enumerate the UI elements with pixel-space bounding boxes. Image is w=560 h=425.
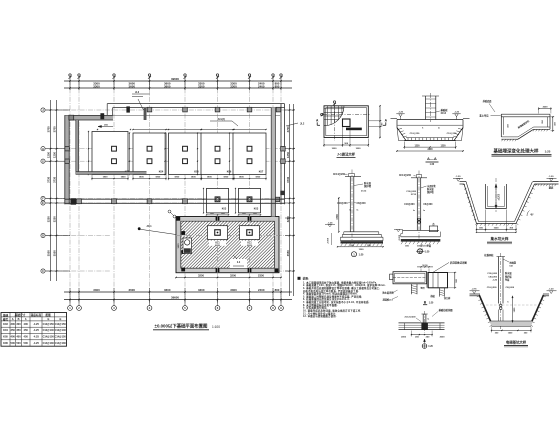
svg-text:K04: K04 [159, 170, 164, 173]
svg-text:G: G [42, 160, 44, 163]
svg-text:-1.26: -1.26 [492, 280, 498, 282]
svg-text:1250: 1250 [414, 145, 420, 147]
svg-text:450: 450 [24, 328, 29, 332]
svg-text:K03: K03 [254, 208, 259, 211]
svg-text:J-1做法大样: J-1做法大样 [337, 152, 356, 157]
svg-text:C: C [42, 270, 44, 273]
svg-text:1000: 1000 [356, 148, 362, 150]
svg-text:1:25: 1:25 [545, 149, 551, 153]
svg-text:-4.25: -4.25 [33, 341, 39, 345]
svg-text:JL1(2): JL1(2) [217, 118, 225, 121]
svg-text:39600: 39600 [171, 296, 179, 300]
svg-text:2800: 2800 [427, 149, 433, 151]
svg-text:3300: 3300 [93, 288, 100, 292]
svg-text:1800: 1800 [103, 177, 109, 179]
svg-text:4C14@200: 4C14@200 [333, 173, 346, 176]
svg-text:3600: 3600 [129, 288, 136, 292]
svg-text:-2.76: -2.76 [472, 289, 478, 291]
svg-text:K06: K06 [3, 341, 8, 345]
svg-text:500: 500 [24, 341, 29, 345]
svg-text:350: 350 [11, 328, 16, 332]
svg-text:C10@200: C10@200 [406, 191, 417, 193]
svg-text:3600: 3600 [164, 84, 171, 88]
svg-text:3730: 3730 [47, 176, 51, 182]
svg-text:2000: 2000 [440, 337, 446, 339]
svg-text:编号: 编号 [3, 317, 9, 321]
svg-text:3250: 3250 [198, 274, 204, 278]
svg-text:300: 300 [16, 322, 21, 326]
svg-text:1:100: 1:100 [212, 325, 220, 329]
svg-text:400: 400 [16, 335, 21, 339]
svg-text:-1.20: -1.20 [549, 176, 555, 178]
svg-text:3700: 3700 [53, 126, 57, 132]
svg-text:1800: 1800 [207, 177, 213, 179]
svg-text:1250: 1250 [440, 145, 446, 147]
svg-text:3300: 3300 [93, 84, 100, 88]
svg-text:3700: 3700 [47, 126, 51, 132]
svg-text:-1.20: -1.20 [398, 112, 404, 114]
svg-text:3730: 3730 [286, 176, 290, 182]
svg-text:C12@140: C12@140 [43, 329, 55, 332]
svg-text:1:20: 1:20 [429, 302, 434, 304]
svg-text:2000: 2000 [401, 337, 407, 339]
svg-text:②: ② [59, 318, 61, 321]
svg-text:3550: 3550 [47, 250, 51, 256]
svg-text:2400: 2400 [258, 288, 265, 292]
svg-text:800: 800 [275, 84, 280, 88]
svg-text:39600: 39600 [171, 77, 179, 81]
svg-text:3300: 3300 [198, 288, 205, 292]
svg-text:-2.000: -2.000 [399, 234, 401, 241]
svg-text:1800: 1800 [255, 177, 261, 179]
svg-text:C12@150: C12@150 [447, 133, 458, 135]
svg-text:2C12@200: 2C12@200 [404, 316, 416, 318]
svg-text:4C14@200: 4C14@200 [399, 174, 412, 177]
svg-text:1:20: 1:20 [359, 253, 364, 256]
svg-text:2350: 2350 [258, 274, 264, 278]
svg-text:3250: 3250 [286, 216, 290, 222]
svg-text:C14@150: C14@150 [43, 336, 55, 339]
svg-text:1650: 1650 [178, 243, 180, 249]
svg-text:C12@150: C12@150 [55, 323, 67, 326]
svg-text:JC-1: JC-1 [146, 225, 152, 228]
svg-text:3600: 3600 [129, 84, 136, 88]
svg-text:C8@200: C8@200 [506, 287, 515, 289]
svg-text:K03: K03 [222, 208, 227, 211]
svg-text:laE: laE [510, 266, 514, 268]
svg-text:说明:: 说明: [303, 277, 310, 281]
svg-text:C14@150: C14@150 [55, 336, 67, 339]
svg-text:1800: 1800 [121, 177, 127, 179]
svg-text:1000: 1000 [332, 148, 338, 150]
svg-text:-4.25: -4.25 [33, 335, 39, 339]
svg-text:1250: 1250 [53, 151, 57, 157]
svg-text:JL2: JL2 [300, 123, 305, 126]
svg-text:3700: 3700 [286, 126, 290, 132]
svg-text:1800: 1800 [139, 177, 145, 179]
svg-text:K04: K04 [3, 328, 8, 332]
svg-text:电梯基坑大样: 电梯基坑大样 [506, 339, 527, 344]
svg-text:-1.20: -1.20 [549, 289, 555, 291]
svg-text:C14@130: C14@130 [43, 342, 55, 345]
svg-text:1250: 1250 [47, 151, 51, 157]
svg-text:400: 400 [24, 322, 29, 326]
svg-text:800: 800 [275, 288, 280, 292]
svg-text:3250: 3250 [53, 216, 57, 222]
svg-text:3300: 3300 [230, 84, 237, 88]
svg-text:C12@140: C12@140 [55, 329, 67, 332]
svg-text:450: 450 [24, 335, 29, 339]
svg-text:3730: 3730 [53, 176, 57, 182]
svg-text:A—A: A—A [427, 156, 437, 161]
svg-text:2500: 2500 [543, 107, 549, 109]
svg-text:3300: 3300 [198, 84, 205, 88]
svg-text:1500: 1500 [494, 228, 500, 230]
svg-text:(K05): (K05) [247, 245, 252, 247]
svg-text:1800: 1800 [239, 177, 245, 179]
svg-text:1:20: 1:20 [430, 164, 435, 166]
svg-text:K05: K05 [3, 335, 8, 339]
svg-text:①: ① [47, 318, 49, 321]
svg-text:50 50: 50 50 [422, 265, 428, 267]
svg-text:1800: 1800 [191, 177, 197, 179]
svg-text:基底标高: 基底标高 [30, 313, 42, 317]
svg-text:45°: 45° [530, 214, 534, 217]
svg-text:基础: 基础 [3, 313, 9, 317]
svg-text:2C12: 2C12 [361, 191, 367, 193]
svg-text:-1.20: -1.20 [454, 112, 460, 114]
svg-text:3550: 3550 [53, 250, 57, 256]
svg-text:C10@200: C10@200 [404, 204, 415, 206]
svg-text:-1.26: -1.26 [328, 223, 334, 225]
svg-text:-1.20: -1.20 [456, 176, 462, 178]
svg-text:后浇带做法详图: 后浇带做法详图 [449, 260, 467, 264]
svg-text:-4.25: -4.25 [33, 328, 39, 332]
svg-text:(K05): (K05) [215, 245, 220, 247]
svg-text:C8@200: C8@200 [357, 203, 367, 205]
svg-text:1800: 1800 [174, 177, 180, 179]
svg-text:±0.000以下基础平面布置图: ±0.000以下基础平面布置图 [155, 323, 209, 330]
svg-text:C8@200: C8@200 [423, 204, 433, 206]
svg-text:JL3: JL3 [135, 91, 140, 94]
svg-text:3250: 3250 [47, 216, 51, 222]
svg-text:基础尺寸: 基础尺寸 [15, 313, 26, 317]
svg-text:2400: 2400 [258, 84, 265, 88]
svg-text:C14@130: C14@130 [55, 342, 67, 345]
svg-text:A: A [12, 318, 14, 321]
svg-text:400: 400 [11, 335, 16, 339]
svg-text:1250: 1250 [286, 151, 290, 157]
svg-text:1800: 1800 [155, 177, 161, 179]
svg-text:C8@200: C8@200 [488, 276, 497, 278]
svg-text:500: 500 [16, 341, 21, 345]
svg-text:1800: 1800 [223, 177, 229, 179]
svg-text:配筋: 配筋 [46, 313, 52, 317]
svg-text:4C14: 4C14 [441, 112, 447, 115]
svg-text:3550: 3550 [286, 250, 290, 256]
svg-text:B: B [18, 318, 20, 321]
svg-text:1300: 1300 [359, 249, 365, 251]
svg-text:300: 300 [11, 322, 16, 326]
svg-text:350: 350 [16, 328, 21, 332]
svg-text:-2.000: -2.000 [328, 237, 330, 244]
svg-text:2C12: 2C12 [411, 194, 417, 196]
svg-text:1:20: 1:20 [428, 346, 433, 348]
svg-text:-0.06: -0.06 [418, 249, 424, 251]
svg-text:3300: 3300 [230, 288, 237, 292]
svg-text:3200: 3200 [230, 274, 236, 278]
svg-text:K03: K03 [3, 322, 8, 326]
svg-text:C10@200: C10@200 [487, 273, 498, 275]
svg-text:基础埋深变化处理大样: 基础埋深变化处理大样 [494, 147, 539, 154]
svg-text:K05: K05 [194, 170, 199, 173]
svg-text:C10@200: C10@200 [487, 287, 498, 289]
svg-text:1700: 1700 [336, 214, 339, 220]
svg-text:H: H [42, 148, 44, 151]
svg-text:1:20: 1:20 [425, 250, 430, 253]
svg-text:500: 500 [11, 341, 16, 345]
svg-text:K07: K07 [259, 170, 264, 173]
svg-text:≥1200: ≥1200 [498, 193, 501, 200]
svg-text:C12@150: C12@150 [43, 323, 55, 326]
svg-text:集水坑大样: 集水坑大样 [490, 236, 509, 241]
svg-text:3600: 3600 [164, 288, 171, 292]
svg-text:C12@150: C12@150 [410, 133, 421, 135]
svg-text:-4.25: -4.25 [33, 322, 39, 326]
svg-text:D: D [42, 235, 44, 238]
